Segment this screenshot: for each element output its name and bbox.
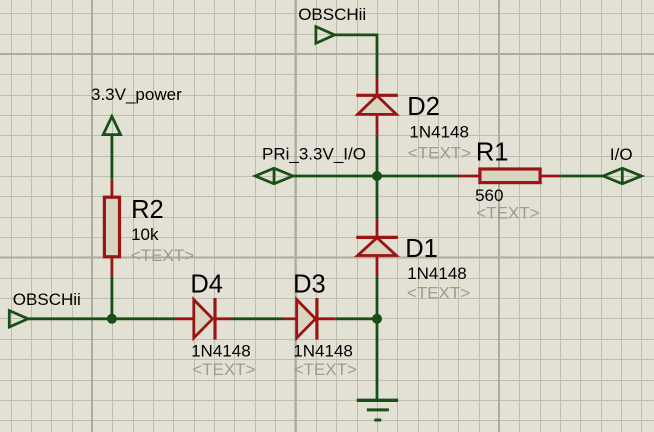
terminal: input OBSCHii (bottom): [9, 290, 81, 327]
svg-text:I/O: I/O: [610, 145, 633, 164]
terminal: bidirectional I/O (right): [603, 145, 641, 184]
svg-text:<TEXT>: <TEXT>: [407, 284, 470, 303]
svg-text:1N4148: 1N4148: [293, 342, 353, 361]
node: junction of R2 with bottom OBSCHii wire: [107, 314, 117, 324]
svg-text:D4: D4: [190, 271, 223, 299]
svg-text:<TEXT>: <TEXT>: [408, 144, 471, 163]
svg-text:PRi_3.3V_I/O: PRi_3.3V_I/O: [262, 145, 366, 164]
wire: top OBSCHii terminal to D2 anode (corner): [335, 35, 377, 78]
svg-text:<TEXT>: <TEXT>: [476, 204, 539, 223]
svg-text:OBSCHii: OBSCHii: [13, 290, 81, 309]
svg-text:<TEXT>: <TEXT>: [192, 360, 255, 379]
terminal: input OBSCHii (top): [298, 5, 366, 43]
diode D2: [356, 78, 471, 163]
wire: R2 bottom pin to bottom wire: [111, 275, 114, 320]
diode D3: [283, 271, 357, 379]
svg-text:<TEXT>: <TEXT>: [131, 246, 194, 265]
node: junction of D3 cathode / D1 net / ground: [372, 314, 382, 324]
wire: D4 cathode to D3 anode: [233, 317, 284, 320]
wire: D2 cathode down through node to D1 anode: [376, 135, 379, 219]
resistor R2: [104, 179, 194, 275]
svg-text:R2: R2: [131, 196, 164, 224]
svg-text:OBSCHii: OBSCHii: [298, 5, 366, 24]
terminal: bidirectional PRi_3.3V_I/O: [255, 145, 366, 184]
terminal: power 3.3V_power: [91, 85, 182, 135]
svg-text:D3: D3: [293, 271, 326, 299]
svg-text:10k: 10k: [131, 225, 159, 244]
wire: D3 cathode to bottom node: [335, 317, 377, 320]
svg-text:1N4148: 1N4148: [191, 342, 251, 361]
node: junction of PRi / D2 / D1 / R1 net: [372, 171, 382, 181]
wire: R1 right pin to I/O terminal: [560, 175, 603, 178]
ground: [357, 400, 398, 420]
svg-text:1N4148: 1N4148: [409, 122, 469, 141]
svg-text:R1: R1: [476, 138, 509, 166]
wire: bottom OBSCHii terminal to D4 anode: [28, 317, 175, 320]
wire: D1 cathode down to bottom node and ground: [376, 276, 379, 400]
diode D4: [175, 271, 256, 379]
wire: power terminal stem to R2 top pin: [111, 135, 114, 179]
resistor R1: [459, 138, 560, 222]
svg-text:3.3V_power: 3.3V_power: [91, 85, 182, 104]
svg-text:<TEXT>: <TEXT>: [294, 360, 357, 379]
svg-text:D2: D2: [407, 93, 440, 121]
svg-text:1N4148: 1N4148: [407, 264, 467, 283]
svg-text:560: 560: [475, 186, 503, 205]
diode D1: [356, 220, 470, 303]
svg-text:D1: D1: [405, 235, 438, 263]
wire: PRi terminal to R1 left pin: [293, 175, 459, 178]
